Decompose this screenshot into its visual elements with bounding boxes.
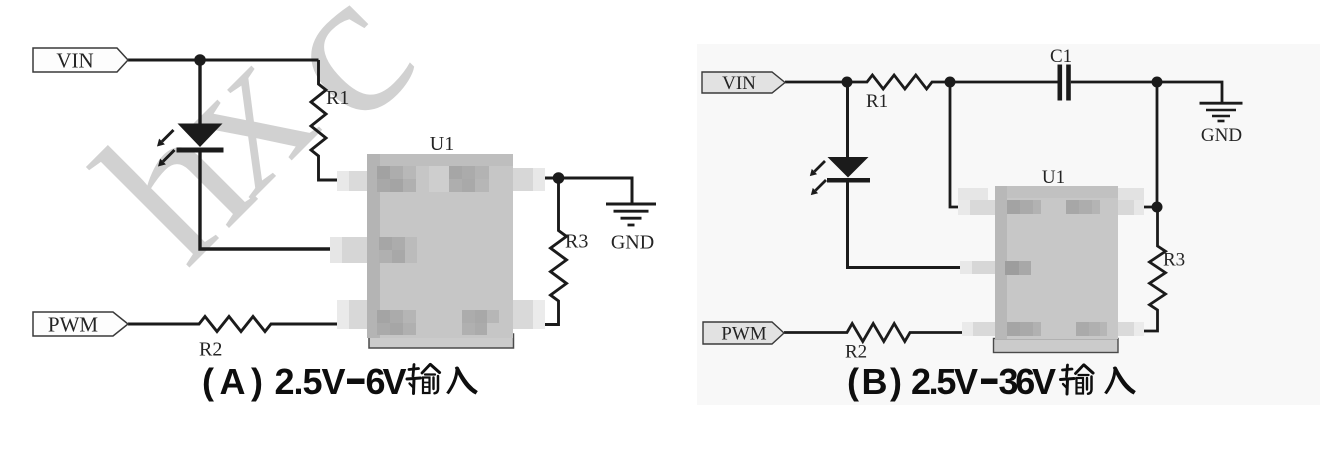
wire junction B1 down to LED	[846, 82, 849, 158]
capacitor C1 plates	[1058, 65, 1063, 101]
node junction B3	[1152, 77, 1163, 88]
net flag VIN (A)	[33, 48, 128, 72]
node junction A2 (R3 top)	[553, 172, 565, 184]
ground GND (A)	[606, 204, 656, 225]
svg-text:PWM: PWM	[721, 324, 767, 345]
LED D1 (B) light arrow 2	[811, 180, 826, 195]
svg-text:VIN: VIN	[722, 73, 756, 94]
wire LED-B cathode to U1 middle pin	[848, 183, 971, 268]
resistor R2 (A) with wires from PWM flag to U1	[128, 317, 348, 332]
watermark hxc	[56, 0, 455, 302]
svg-text:36V: 36V	[999, 361, 1057, 402]
wire C1 to GND corner	[1071, 82, 1222, 103]
net flag PWM (B)	[703, 322, 784, 344]
wire VIN-A to R1 top	[128, 59, 319, 62]
svg-text:C1: C1	[1050, 46, 1072, 67]
net flag PWM (A)	[33, 312, 128, 336]
net flag VIN (B)	[702, 72, 785, 93]
svg-text:R3: R3	[1163, 250, 1185, 271]
svg-text:GND: GND	[611, 232, 654, 254]
wire LED cathode to U1 pin (middle-left)	[200, 153, 348, 250]
node junction A1	[194, 54, 206, 66]
resistor R2 (B) with wires from PWM to U1	[784, 324, 970, 342]
svg-text:R2: R2	[199, 339, 222, 361]
resistor R1 (A)	[311, 60, 348, 180]
LED D1 light arrow 2	[158, 150, 175, 167]
wire U1 right pin1 to GND branch	[535, 178, 632, 203]
IC U1 (B) pin pads left	[958, 188, 988, 200]
IC U1 (A) body outline below mosaic	[369, 334, 514, 348]
svg-text:U1: U1	[430, 133, 454, 155]
LED D1 triangle	[178, 124, 223, 148]
node junction B4	[1152, 202, 1163, 213]
svg-text:PWM: PWM	[48, 313, 99, 337]
wire VIN-B to R1	[785, 75, 950, 89]
svg-text:(A): (A)	[202, 361, 263, 402]
svg-text:R1: R1	[866, 91, 888, 112]
svg-text:6V: 6V	[366, 361, 407, 402]
resistor R3 (A)	[538, 178, 567, 325]
wire junction B3 down to U1 pin / R3 top	[1140, 82, 1157, 207]
resistor R3 (B)	[1140, 207, 1166, 331]
IC U1 (A) pin pads left	[337, 171, 367, 191]
svg-text:(B): (B)	[847, 361, 902, 402]
IC U1 (B) pin pads right	[1118, 188, 1144, 200]
LED D1 cathode bar	[177, 148, 224, 153]
svg-text:U1: U1	[1042, 167, 1065, 188]
LED D1 (B) cathode bar	[827, 178, 870, 183]
IC U1 (B) body outline below mosaic	[994, 339, 1119, 353]
LED D1 light arrow 1	[157, 130, 174, 147]
panel B faint background	[697, 44, 1320, 405]
svg-text:2.5V: 2.5V	[911, 361, 978, 402]
svg-text:R2: R2	[845, 342, 867, 363]
node junction B1	[842, 77, 853, 88]
wire junction to LED anode	[198, 60, 201, 124]
svg-text:2.5V: 2.5V	[275, 361, 346, 402]
svg-text:R3: R3	[565, 231, 588, 253]
svg-text:GND: GND	[1201, 125, 1242, 146]
LED D1 (B) light arrow 1	[810, 161, 825, 176]
IC U1 (A) pin pads right	[513, 168, 545, 191]
IC U1 (A) pixelated body	[330, 154, 545, 338]
svg-text:R1: R1	[326, 87, 349, 109]
wire R1 to C1 left plate	[950, 81, 1058, 84]
IC U1 (B) pixelated body	[958, 186, 1144, 339]
wire junction B2 down to U1 pin1	[950, 82, 970, 207]
ground GND (B)	[1200, 103, 1243, 121]
node junction B2	[945, 77, 956, 88]
svg-text:VIN: VIN	[56, 49, 93, 73]
LED D1 (B) triangle	[828, 157, 869, 178]
